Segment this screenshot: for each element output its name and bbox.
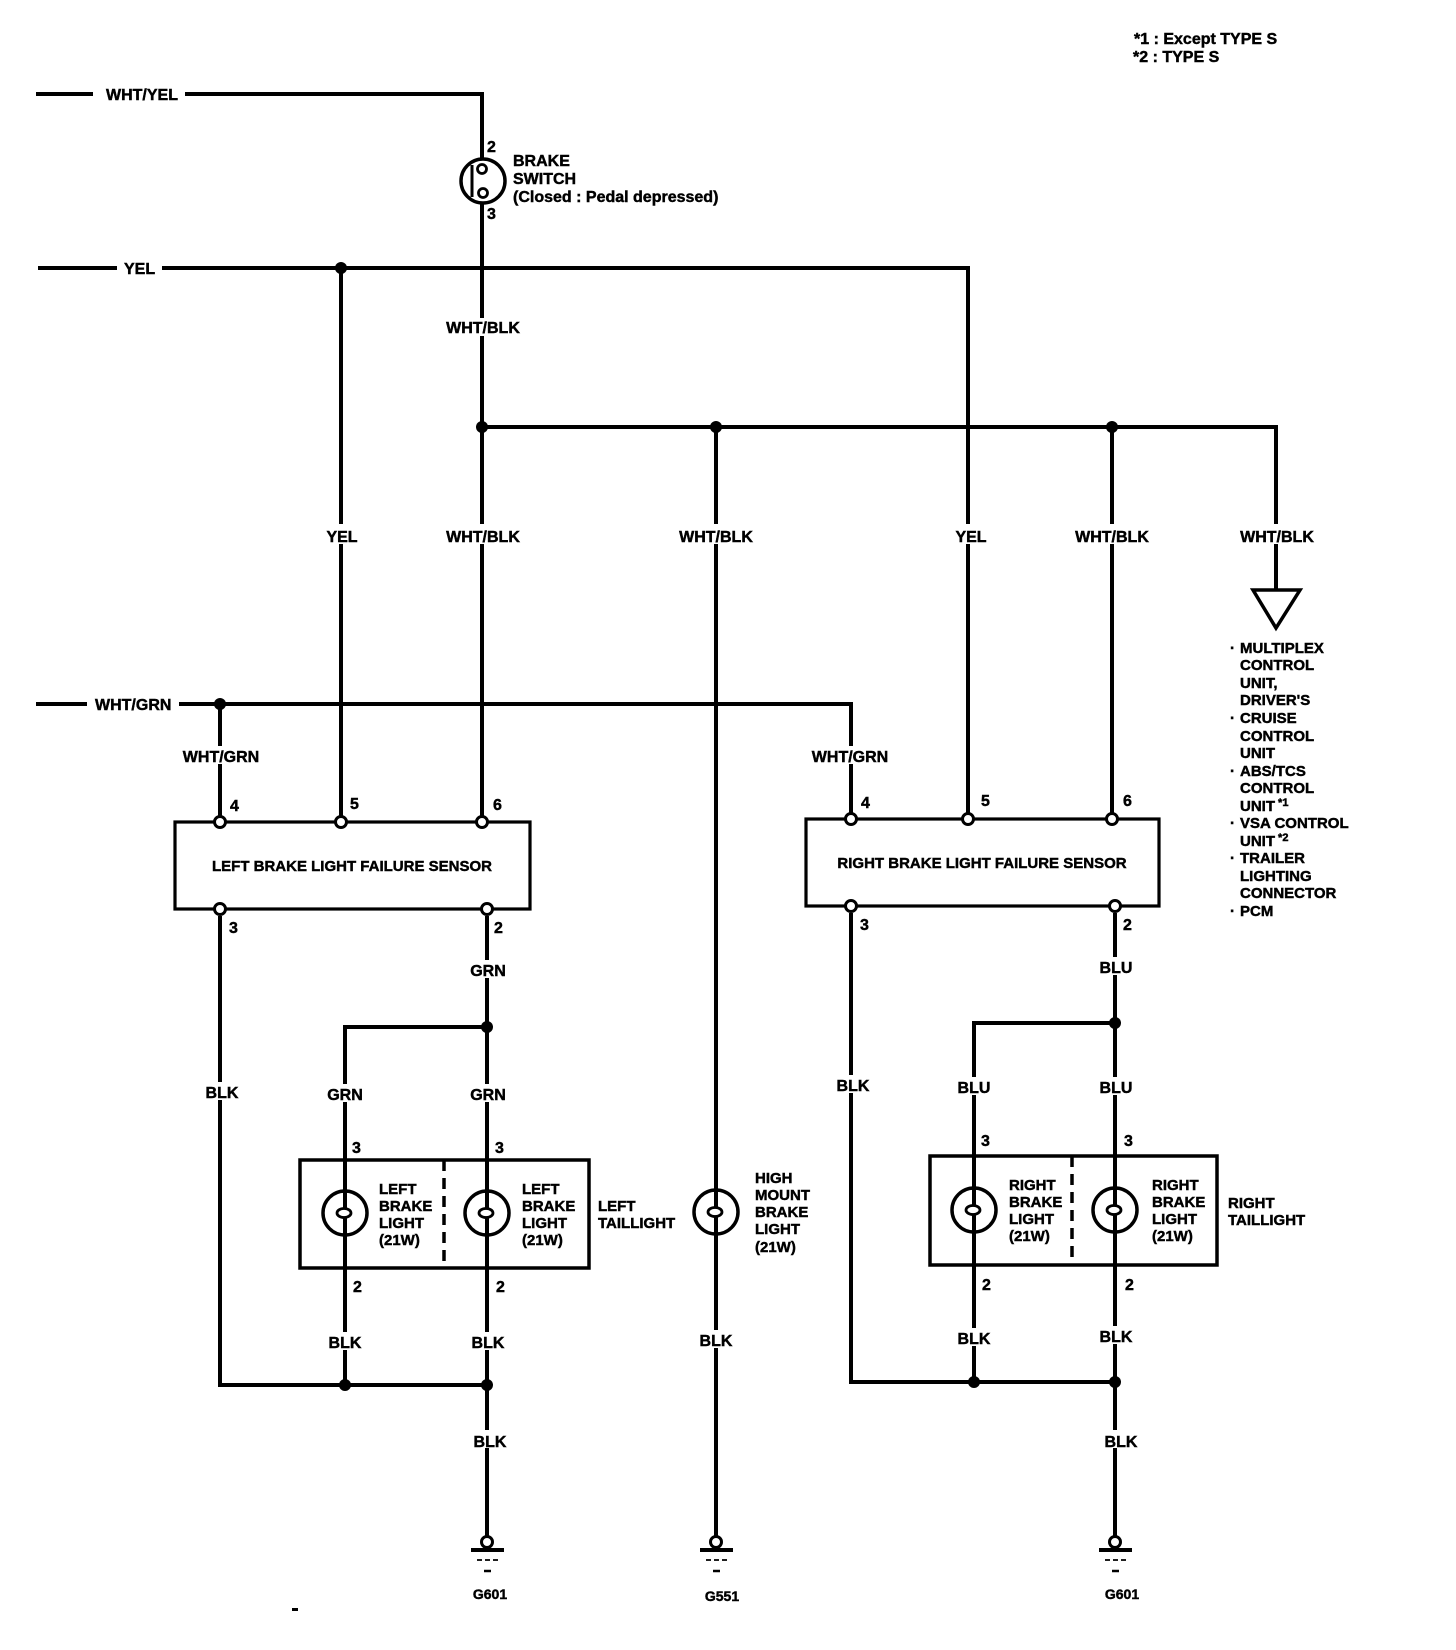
junction WHT/GRN branch [214,698,226,710]
label BLK (x=1115 lower) [1094,1326,1138,1346]
svg-text:BLK: BLK [329,1335,362,1352]
scan speck [292,1608,298,1611]
svg-text:BLU: BLU [958,1080,991,1097]
terminal pin 6 left sensor [477,817,488,828]
bulb right brake light A (21W) [952,1188,996,1232]
wire YEL branch (vertical x=341 to left sensor pin 5) [339,268,343,822]
svg-text:4: 4 [230,798,239,815]
svg-text:GRN: GRN [327,1087,363,1104]
label RIGHT BRAKE LIGHT (21W) B [1152,1177,1205,1245]
terminal pin 2 left sensor [482,904,493,915]
label WHT/BLK upper [445,318,521,337]
svg-text:MULTIPLEX: MULTIPLEX [1240,640,1324,657]
svg-text:BLK: BLK [1100,1329,1133,1346]
svg-text:WHT/BLK: WHT/BLK [1240,529,1314,546]
label BLK (x=974 lower) [952,1328,996,1348]
bulb high mount brake light (21W) [694,1190,738,1234]
label GRN below pin 2 [466,960,510,980]
wire GRN jumper to second bulb [345,1027,487,1385]
ground G601 right [1099,1537,1132,1572]
svg-text:LEFT: LEFT [598,1198,636,1215]
wire YEL right drop (vertical x=968 to right sensor pin 5) [966,266,970,819]
svg-text:CRUISE: CRUISE [1240,710,1297,727]
svg-text:CONTROL: CONTROL [1240,780,1314,797]
label RIGHT BRAKE LIGHT (21W) A [1009,1177,1062,1245]
brake switch (Closed : Pedal depressed) [461,159,505,203]
svg-text:TAILLIGHT: TAILLIGHT [598,1215,675,1232]
svg-text:CONTROL: CONTROL [1240,657,1314,674]
wire WHT/BLK high-mount drop (vertical x=716) [714,427,718,1536]
svg-text:·: · [1230,640,1235,657]
svg-text:LIGHT: LIGHT [755,1221,800,1238]
label RIGHT TAILLIGHT [1228,1195,1305,1229]
svg-text:6: 6 [493,797,502,814]
svg-text:BLU: BLU [1100,960,1133,977]
svg-text:HIGH: HIGH [755,1170,793,1187]
svg-text:G551: G551 [705,1588,739,1604]
wire BLK right sensor pin 3 down [851,913,1115,1382]
svg-text:·: · [1230,763,1235,780]
terminal pin 4 left sensor [215,817,226,828]
svg-text:BLK: BLK [837,1078,870,1095]
svg-text:(21W): (21W) [1152,1228,1193,1245]
svg-text:ABS/TCS: ABS/TCS [1240,763,1306,780]
junction bus at right WHT/BLK drop [1106,421,1118,433]
svg-text:LEFT BRAKE LIGHT FAILURE SENSO: LEFT BRAKE LIGHT FAILURE SENSOR [212,858,492,875]
svg-text:YEL: YEL [955,529,986,546]
svg-text:3: 3 [981,1133,990,1150]
bulb right brake light B (21W) [1093,1188,1137,1232]
svg-text:(21W): (21W) [379,1232,420,1249]
svg-text:BLK: BLK [206,1085,239,1102]
svg-text:CONNECTOR: CONNECTOR [1240,885,1337,902]
wire BLU right sensor pin 2 down [1113,913,1117,1536]
label BLK above G601 right [1099,1430,1143,1451]
svg-text:UNIT: UNIT [1240,745,1275,762]
svg-text:2: 2 [353,1279,362,1296]
node list multiplex/cruise/abs destinations [1230,640,1349,920]
junction left ground bus at x=345 [339,1379,351,1391]
wire WHT/GRN left branch (vertical x=220 to left sensor pin 4) [218,704,222,822]
wire WHT/BLK right drop (vertical x=1112 to right sensor pin 6) [1110,427,1114,819]
svg-text:G601: G601 [1105,1586,1139,1602]
terminal pin 3 left sensor [215,904,226,915]
svg-text:LIGHT: LIGHT [1009,1211,1054,1228]
svg-text:LIGHT: LIGHT [1152,1211,1197,1228]
svg-text:(21W): (21W) [1009,1228,1050,1245]
svg-text:PCM: PCM [1240,903,1273,920]
svg-text:GRN: GRN [470,963,506,980]
svg-text:LEFT: LEFT [522,1181,560,1198]
label BLU (x=974) [952,1077,996,1097]
svg-text:(21W): (21W) [755,1239,796,1256]
svg-text:GRN: GRN [470,1087,506,1104]
svg-text:BLK: BLK [1105,1434,1138,1451]
terminal pin 6 right sensor [1107,814,1118,825]
svg-text:2: 2 [487,139,496,156]
svg-text:LEFT: LEFT [379,1181,417,1198]
svg-text:*2 : TYPE S: *2 : TYPE S [1133,49,1220,66]
svg-text:3: 3 [352,1140,361,1157]
label WHT/GRN left branch [182,746,260,766]
label BLK (x=716 lower) [694,1330,738,1350]
svg-text:5: 5 [350,796,359,813]
wire YEL feed (horizontal y=268) [38,266,968,270]
terminal pin 3 right sensor [846,901,857,912]
divider dashed left bulb box [442,1160,446,1268]
label BLU (x=1115) [1094,1077,1138,1097]
svg-text:2: 2 [1125,1277,1134,1294]
junction GRN jumper [481,1021,493,1033]
bulb left brake light A (21W) [323,1191,367,1235]
right brake light failure sensor box [806,819,1159,906]
svg-text:RIGHT BRAKE LIGHT FAILURE SENS: RIGHT BRAKE LIGHT FAILURE SENSOR [837,855,1126,872]
left taillight bulb box [300,1160,589,1268]
svg-text:2: 2 [496,1279,505,1296]
label BLU below pin 2 [1094,957,1138,977]
svg-text:BRAKE: BRAKE [513,153,570,170]
svg-text:3: 3 [487,206,496,223]
label HIGH MOUNT BRAKE LIGHT (21W) [755,1170,810,1256]
svg-text:2: 2 [1123,917,1132,934]
arrow to multiplex control unit [1253,590,1300,628]
svg-text:·: · [1230,710,1235,727]
svg-text:RIGHT: RIGHT [1228,1195,1275,1212]
label row YEL (x=968) [949,524,993,546]
svg-text:(Closed : Pedal depressed): (Closed : Pedal depressed) [513,189,718,206]
wire WHT/BLK bus (horizontal y=427) [481,425,1278,429]
svg-text:LIGHT: LIGHT [522,1215,567,1232]
label LEFT TAILLIGHT [598,1198,675,1232]
wire WHT/BLK brake switch to bus (vertical x=482) [480,202,484,822]
label row WHT/BLK (x=1276) [1238,524,1314,546]
svg-text:5: 5 [981,793,990,810]
svg-text:RIGHT: RIGHT [1152,1177,1199,1194]
svg-text:(21W): (21W) [522,1232,563,1249]
svg-text:WHT/GRN: WHT/GRN [812,749,888,766]
svg-text:BLK: BLK [700,1333,733,1350]
svg-text:TAILLIGHT: TAILLIGHT [1228,1212,1305,1229]
svg-text:SWITCH: SWITCH [513,171,576,188]
svg-text:2: 2 [982,1277,991,1294]
svg-text:LIGHT: LIGHT [379,1215,424,1232]
svg-text:G601: G601 [473,1586,507,1602]
svg-text:4: 4 [861,795,870,812]
wire WHT/GRN right drop (vertical x=851 to right sensor pin 4) [849,702,853,819]
label row WHT/BLK (x=1112) [1074,524,1150,546]
svg-text:LIGHTING: LIGHTING [1240,868,1312,885]
svg-text:BRAKE: BRAKE [1152,1194,1205,1211]
svg-text:WHT/BLK: WHT/BLK [446,320,520,337]
svg-text:YEL: YEL [326,529,357,546]
svg-text:BLK: BLK [472,1335,505,1352]
svg-text:VSA CONTROL: VSA CONTROL [1240,815,1349,832]
divider dashed right bulb box [1070,1156,1074,1265]
label LEFT BRAKE LIGHT (21W) B [522,1181,575,1249]
label row YEL (x=341) [320,524,364,546]
svg-text:·: · [1230,850,1235,867]
svg-text:BRAKE: BRAKE [755,1204,808,1221]
svg-text:·: · [1230,903,1235,920]
svg-text:*1 : Except TYPE S: *1 : Except TYPE S [1134,31,1277,48]
label BLK (x=487 lower) [466,1332,510,1352]
label BRAKE SWITCH [513,153,718,206]
terminal pin 2 right sensor [1110,901,1121,912]
wire BLU jumper to second bulb [974,1023,1115,1382]
label LEFT BRAKE LIGHT (21W) A [379,1181,432,1249]
terminal pin 5 right sensor [963,814,974,825]
svg-text:WHT/GRN: WHT/GRN [183,749,259,766]
svg-text:WHT/YEL: WHT/YEL [106,87,178,104]
svg-text:CONTROL: CONTROL [1240,728,1314,745]
svg-text:UNIT,: UNIT, [1240,675,1278,692]
svg-text:BRAKE: BRAKE [379,1198,432,1215]
svg-text:3: 3 [1124,1133,1133,1150]
ground G551 [700,1537,733,1572]
junction right ground bus at x=974 [968,1376,980,1388]
label GRN (x=345) [323,1084,367,1104]
svg-text:DRIVER'S: DRIVER'S [1240,692,1310,709]
junction BLU jumper [1109,1017,1121,1029]
svg-text:WHT/BLK: WHT/BLK [446,529,520,546]
ground G601 left [471,1537,504,1572]
svg-text:WHT/BLK: WHT/BLK [679,529,753,546]
svg-text:6: 6 [1123,793,1132,810]
svg-text:·: · [1230,815,1235,832]
junction bus at high-mount drop [710,421,722,433]
terminal pin 4 right sensor [846,814,857,825]
svg-text:3: 3 [860,917,869,934]
label WHT/GRN right drop [812,746,890,766]
label BLK (x=345 lower) [323,1332,367,1352]
bulb left brake light B (21W) [465,1191,509,1235]
svg-text:YEL: YEL [124,261,155,278]
terminal pin 5 left sensor [336,817,347,828]
junction right ground bus at x=1115 [1109,1376,1121,1388]
junction left ground bus at x=487 [481,1379,493,1391]
wire WHT/BLK arrow drop (vertical x=1278) [1274,427,1278,592]
label BLK (x=220) [202,1082,242,1102]
svg-text:BLK: BLK [958,1331,991,1348]
label BLK above G601 left [468,1430,512,1451]
svg-text:WHT/GRN: WHT/GRN [95,697,171,714]
svg-text:3: 3 [495,1140,504,1157]
label GRN (x=487) [466,1084,510,1104]
svg-text:BLK: BLK [474,1434,507,1451]
svg-text:3: 3 [229,920,238,937]
svg-text:BRAKE: BRAKE [1009,1194,1062,1211]
label row WHT/BLK (x=716) [678,524,754,546]
svg-text:BLU: BLU [1100,1080,1133,1097]
label row WHT/BLK (x=482) [445,524,521,546]
wire WHT/GRN feed (horizontal y=704) [36,702,851,706]
svg-text:WHT/BLK: WHT/BLK [1075,529,1149,546]
svg-text:MOUNT: MOUNT [755,1187,810,1204]
junction YEL branch [335,262,347,274]
label BLK (x=851) [833,1075,873,1095]
junction bus at brake switch wire [476,421,488,433]
left brake light failure sensor box [175,822,530,909]
wire WHT/YEL feed (top horizontal) [36,92,484,160]
right taillight bulb box [930,1156,1217,1265]
wire BLK left sensor pin 3 down [220,916,488,1385]
svg-text:TRAILER: TRAILER [1240,850,1305,867]
wire GRN left sensor pin 2 down [485,916,489,1536]
svg-text:2: 2 [494,920,503,937]
svg-text:RIGHT: RIGHT [1009,1177,1056,1194]
svg-text:BRAKE: BRAKE [522,1198,575,1215]
note type-S legend [1133,31,1277,66]
